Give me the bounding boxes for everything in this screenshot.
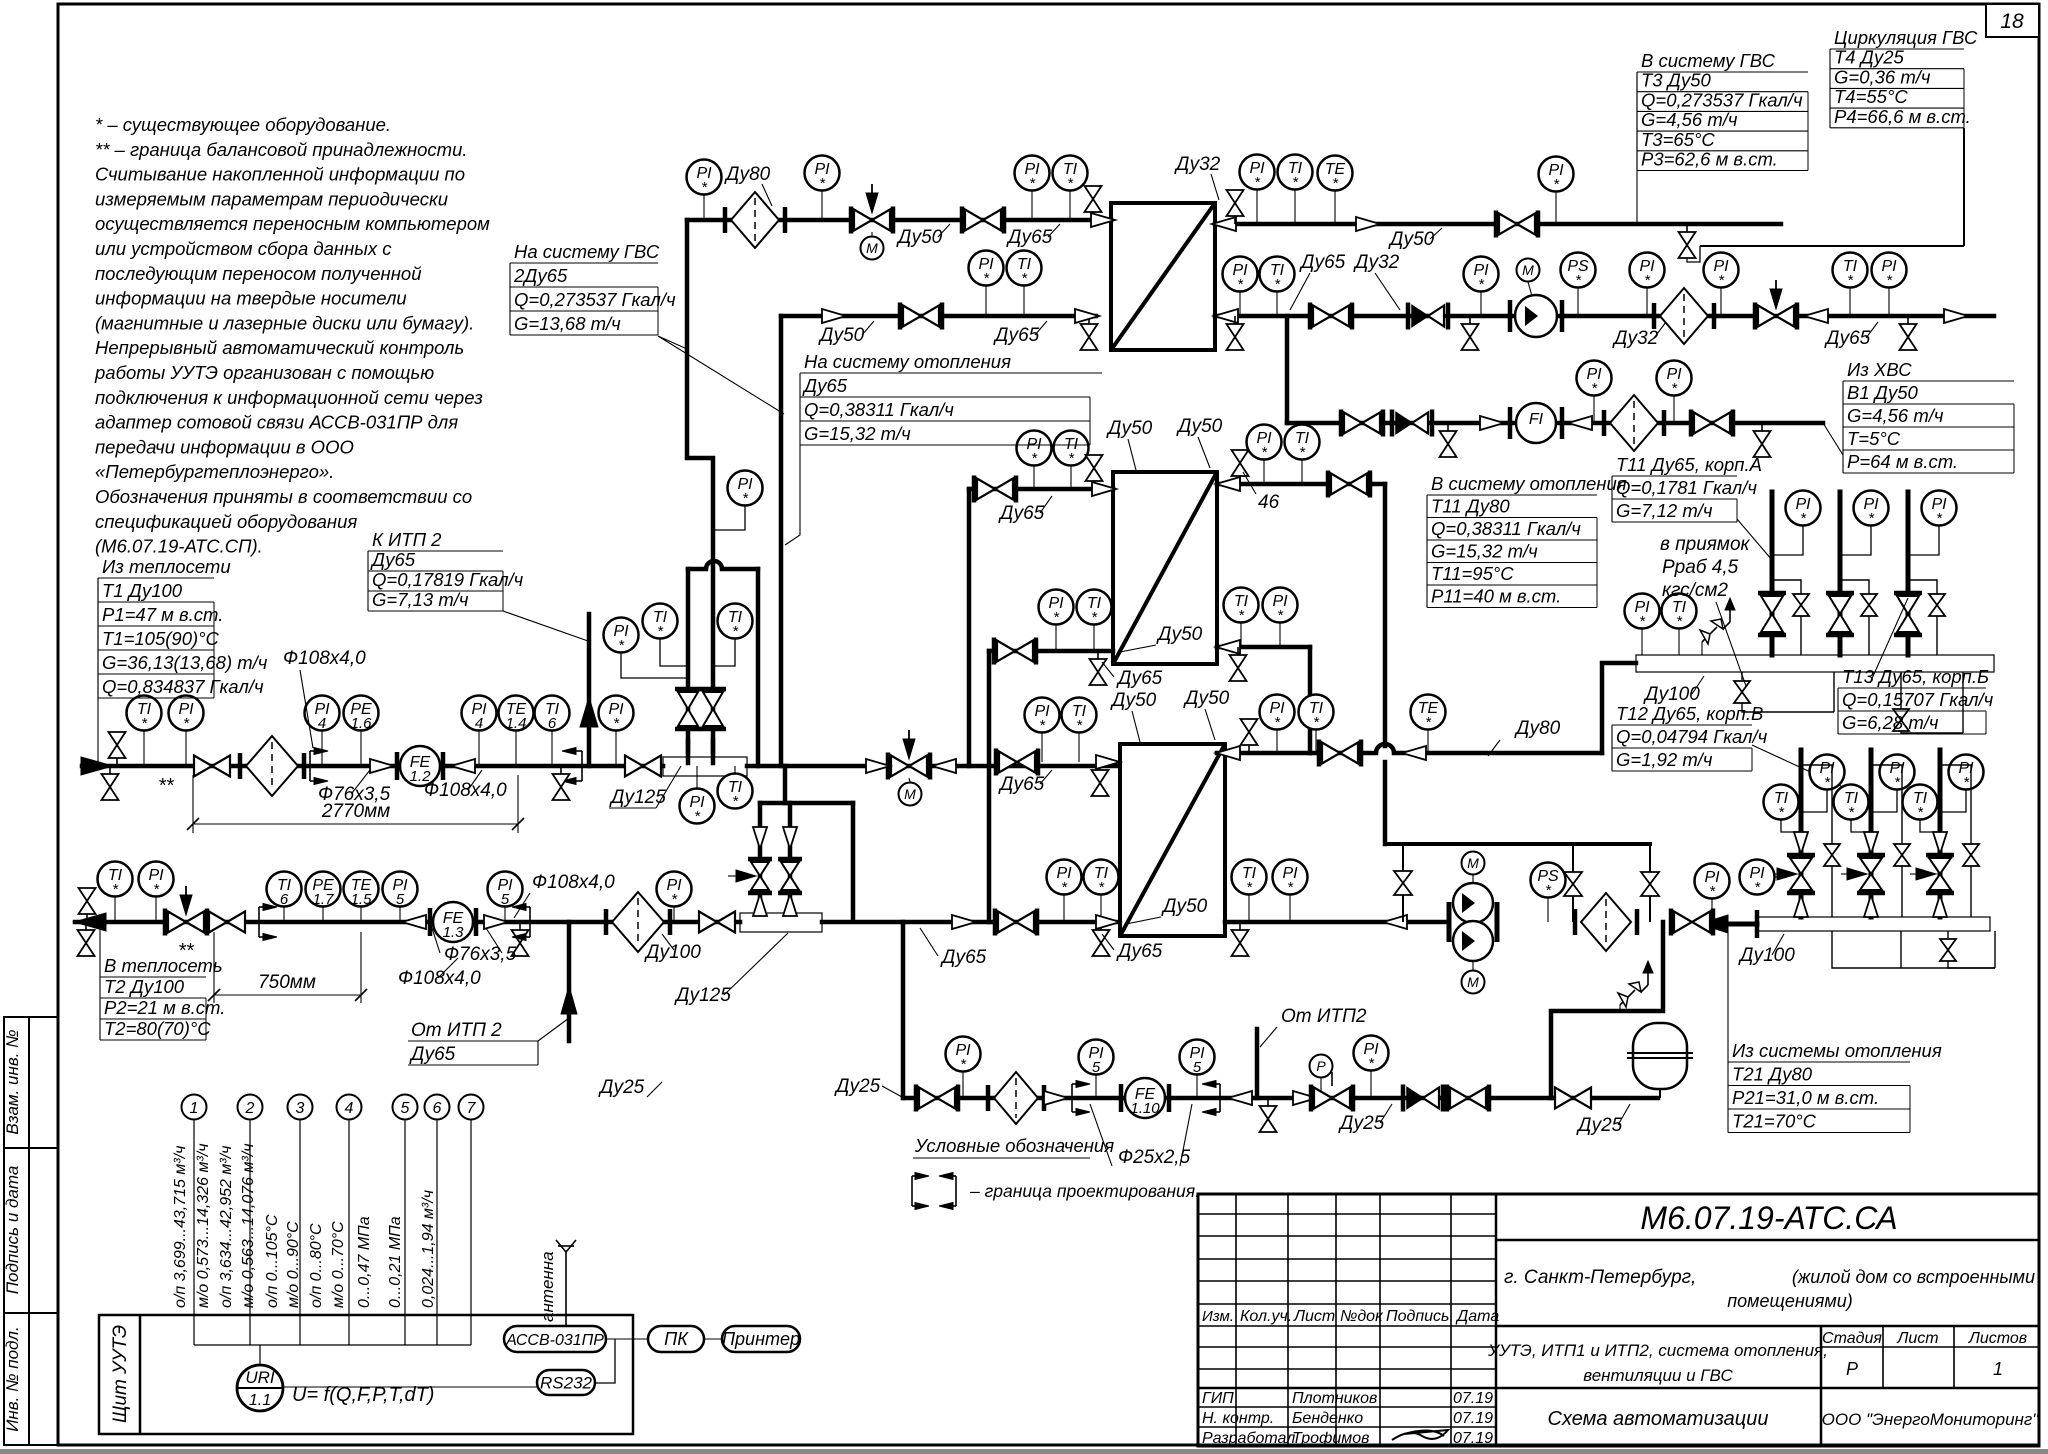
svg-text:№док: №док xyxy=(1340,1308,1384,1325)
motor M pump GVS xyxy=(1517,259,1540,282)
manometer PI* T3 b xyxy=(805,156,840,193)
manometer PI* riser xyxy=(728,471,763,508)
svg-text:От ИТП 2: От ИТП 2 xyxy=(411,1020,502,1041)
relief valve makeup xyxy=(1618,961,1653,1007)
leader T12 xyxy=(1752,745,1871,800)
pipe row2 left xyxy=(781,314,1096,319)
title block text xyxy=(1202,1200,2039,1447)
actuator arrow return 1 xyxy=(1777,868,1797,880)
temp sensor TE-1.5 xyxy=(344,872,379,909)
svg-text:подключения к информационной с: подключения к информационной сети через xyxy=(95,387,483,408)
svg-text:кгс/см2: кгс/см2 xyxy=(1662,580,1728,601)
svg-text:Q=0,17819 Гкал/ч: Q=0,17819 Гкал/ч xyxy=(372,569,524,590)
pipe makeup Du25 xyxy=(903,1096,1658,1101)
svg-text:Т=5°С: Т=5°С xyxy=(1847,428,1901,449)
thermometer TI* return 2 xyxy=(1834,785,1869,822)
svg-text:Циркуляция ГВС: Циркуляция ГВС xyxy=(1834,27,1978,48)
arrow into return valve 3 xyxy=(1933,832,1947,854)
pipe heating return right xyxy=(1225,920,1449,925)
svg-text:Т1=105(90)°С: Т1=105(90)°С xyxy=(102,628,220,649)
bypass valve left xyxy=(748,859,772,893)
strainer heating xyxy=(1575,893,1637,951)
svg-text:Разработал: Разработал xyxy=(1202,1430,1295,1447)
valve HX3 bottom-left xyxy=(995,909,1037,936)
manometer PI* mid xyxy=(680,789,715,826)
svg-text:в приямок: в приямок xyxy=(1660,534,1751,555)
svg-text:Трофимов: Трофимов xyxy=(1292,1430,1370,1447)
flow transducer FE-1.10 xyxy=(1119,1084,1124,1112)
svg-text:Ду100: Ду100 xyxy=(1738,945,1795,966)
bypass left drop xyxy=(758,803,763,913)
leader K ITP2 xyxy=(503,611,588,641)
flow indicator FI xyxy=(1516,403,1556,443)
temp sensor TE-1.4 xyxy=(499,696,534,733)
svg-text:Ду65: Ду65 xyxy=(802,375,848,396)
mixing header xyxy=(688,567,706,572)
return riser 1 xyxy=(1799,750,1804,917)
thermometer TI* HX3tr xyxy=(1299,695,1334,732)
pressure transmitter PE-1.6 xyxy=(344,696,379,733)
svg-text:Т11=95°С: Т11=95°С xyxy=(1431,563,1514,584)
drain valve row2 right xyxy=(1227,316,1244,350)
svg-text:Р1=47 м в.ст.: Р1=47 м в.ст. xyxy=(102,604,223,625)
title block grid xyxy=(1198,1194,2039,1446)
arrow into bypass left xyxy=(753,827,767,849)
svg-text:Q=0,04794 Гкал/ч: Q=0,04794 Гкал/ч xyxy=(1616,726,1768,747)
thermometer TI* HX2tr xyxy=(1285,425,1320,462)
valve supply riser 1 xyxy=(1758,593,1786,635)
svg-text:4: 4 xyxy=(345,1100,354,1117)
flow arrow makeup xyxy=(1044,1091,1068,1105)
check valve row2 xyxy=(1408,303,1448,330)
return manifold xyxy=(1757,917,1990,931)
svg-text:18: 18 xyxy=(2000,10,2024,33)
info box V sistemu otopleniya xyxy=(1427,473,1627,608)
thermometer TI* row2 far xyxy=(1833,253,1868,290)
valve twin right xyxy=(700,689,726,729)
flow transducer FE-1.3 xyxy=(428,908,433,936)
drain to circulation xyxy=(1679,224,1696,258)
svg-text:750мм: 750мм xyxy=(258,972,316,993)
pipe GVS riser from top line xyxy=(687,220,713,752)
svg-text:(М6.07.19-АТС.СП).: (М6.07.19-АТС.СП). xyxy=(95,536,263,557)
manometer PI* T3 c xyxy=(1015,156,1050,193)
svg-text:G=6,28 т/ч: G=6,28 т/ч xyxy=(1842,712,1939,733)
relief drop pipe xyxy=(1551,922,1663,1098)
svg-text:1.5: 1.5 xyxy=(351,891,373,908)
svg-text:Стадия: Стадия xyxy=(1822,1330,1882,1347)
svg-text:вентиляции и ГВС: вентиляции и ГВС xyxy=(1583,1366,1733,1385)
svg-text:От ИТП2: От ИТП2 xyxy=(1281,1006,1367,1027)
bypass valve riser 1 xyxy=(1772,580,1801,655)
thermometer TI* return 3 xyxy=(1903,785,1938,822)
pipe T2 return main xyxy=(75,920,740,925)
svg-text:Ду65: Ду65 xyxy=(370,549,416,570)
flow arrow supply inlet xyxy=(81,757,113,775)
svg-text:Ду50: Ду50 xyxy=(1110,690,1157,711)
valve return b xyxy=(699,912,735,933)
svg-text:6: 6 xyxy=(548,715,557,732)
svg-text:Подпись и дата: Подпись и дата xyxy=(3,1166,22,1295)
bypass return riser 3 xyxy=(1940,765,1971,917)
arrow into manifold 3 xyxy=(1933,895,1947,917)
valve makeup 2 xyxy=(1447,1085,1489,1112)
boundary mark makeup left xyxy=(1072,1081,1090,1116)
svg-text:Т4=55°С: Т4=55°С xyxy=(1834,86,1908,107)
actuator arrow return 3 xyxy=(1916,868,1936,880)
svg-text:В систему отопления: В систему отопления xyxy=(1431,473,1627,494)
svg-text:Ду50: Ду50 xyxy=(896,227,943,248)
thermometer TI* HX2bl xyxy=(1077,590,1112,627)
strainer return xyxy=(606,892,670,952)
control valve M T3 xyxy=(851,207,893,234)
svg-text:Q=0,834837 Гкал/ч: Q=0,834837 Гкал/ч xyxy=(102,676,264,697)
svg-text:1: 1 xyxy=(1993,1359,2003,1379)
twin riser stubs into header xyxy=(686,740,691,763)
drain valve row2 far xyxy=(1900,316,1917,350)
pressure transmitter PE-1.7 xyxy=(306,872,341,909)
svg-text:5: 5 xyxy=(1193,1059,1202,1076)
flow arrow makeup c xyxy=(1293,1091,1317,1105)
info box T12 korp V xyxy=(1612,703,1768,771)
drain valve HX2br xyxy=(1230,647,1247,681)
svg-text:Ду100: Ду100 xyxy=(644,942,701,963)
svg-text:Рраб 4,5: Рраб 4,5 xyxy=(1662,557,1739,578)
boundary marks return right xyxy=(512,904,530,941)
svg-text:G=1,92 т/ч: G=1,92 т/ч xyxy=(1616,749,1713,770)
svg-text:или устройством сбора данных с: или устройством сбора данных с xyxy=(95,238,392,259)
svg-text:Ду50: Ду50 xyxy=(1183,688,1230,709)
valve return xyxy=(209,912,245,933)
svg-text:2Ду65: 2Ду65 xyxy=(513,265,568,286)
drain valve HX3br xyxy=(1232,922,1249,956)
control valve return riser 3 xyxy=(1926,855,1954,893)
motor M pump bottom xyxy=(1462,971,1485,994)
pump GVS xyxy=(1508,300,1513,332)
wire URI-RS232 xyxy=(283,1386,537,1388)
thermometer TI* HX2br xyxy=(1224,588,1259,625)
wire RS232 up to modem line xyxy=(595,1339,615,1383)
svg-text:RS232: RS232 xyxy=(540,1374,593,1393)
svg-text:Ф108х4,0: Ф108х4,0 xyxy=(283,648,366,669)
valve supply riser 2 xyxy=(1826,593,1854,635)
flow arrow into HX1 low xyxy=(1075,309,1099,323)
svg-text:Р: Р xyxy=(1316,1058,1326,1074)
drain manifold left xyxy=(1741,672,1743,680)
flow arrow HX2br xyxy=(1216,640,1240,654)
valve HX2 top-left xyxy=(974,476,1016,503)
boundary marks return left xyxy=(259,904,277,941)
svg-text:Кол.уч.: Кол.уч. xyxy=(1240,1308,1292,1325)
computer URI 1.1 xyxy=(237,1365,283,1411)
manometer PI-5 makeup xyxy=(1079,1040,1114,1077)
svg-text:Ду25: Ду25 xyxy=(1338,1113,1385,1134)
bypass return riser 1 xyxy=(1801,765,1832,917)
svg-text:Ду65: Ду65 xyxy=(993,325,1040,346)
svg-text:В1 Ду50: В1 Ду50 xyxy=(1847,382,1919,403)
vent valve HX2tr xyxy=(1232,450,1249,484)
flow transducer FE-1.2 xyxy=(395,752,400,780)
elbow HX2br down xyxy=(1308,647,1313,753)
svg-text:Ду50: Ду50 xyxy=(1176,416,1223,437)
heat exchanger HX2 xyxy=(1113,472,1217,664)
svg-text:2770мм: 2770мм xyxy=(321,801,390,822)
svg-text:ГИП: ГИП xyxy=(1202,1390,1234,1407)
leader Na sistemu GVS xyxy=(658,336,687,349)
drain valve HX2bl xyxy=(1090,651,1107,685)
manometer PI* T3 elbow xyxy=(687,160,722,197)
svg-text:м/о 0...70°С: м/о 0...70°С xyxy=(330,1221,347,1308)
thermometer TI-6 return xyxy=(267,872,302,909)
wire PC-printer xyxy=(704,1338,722,1340)
flow arrow HX2tr xyxy=(1216,477,1240,491)
svg-text:На систему отопления: На систему отопления xyxy=(804,351,1011,372)
manometer PI* HX2bl xyxy=(1039,590,1074,627)
bypass up arrows xyxy=(753,894,767,916)
valve twin left xyxy=(675,689,701,729)
drain makeup xyxy=(1260,1098,1277,1132)
strainer T3 xyxy=(725,192,785,248)
svg-text:Схема автоматизации: Схема автоматизации xyxy=(1548,1408,1769,1430)
svg-text:0...0,47 МПа: 0...0,47 МПа xyxy=(356,1216,373,1308)
header left leg xyxy=(1402,844,1404,922)
strainer HVS xyxy=(1604,395,1664,451)
channel range labels xyxy=(172,1143,437,1308)
svg-text:(жилой дом со встроенными: (жилой дом со встроенными xyxy=(1792,1267,2035,1287)
elbow Du80 up to manifold xyxy=(1602,663,1636,753)
flow arrow HVS xyxy=(1480,416,1504,430)
drain valve row2 xyxy=(1081,316,1098,350)
svg-text:(магнитные и лазерные диски ил: (магнитные и лазерные диски или бумагу). xyxy=(95,312,474,333)
flow arrow Du80 xyxy=(1402,746,1426,760)
info box Iz teploseti xyxy=(98,556,268,698)
thermometer TI* row2 xyxy=(1007,251,1042,288)
return riser 2 xyxy=(1869,750,1874,917)
leader Iz teploseti xyxy=(97,578,99,766)
svg-text:5: 5 xyxy=(1092,1059,1101,1076)
flow arrow return outlet xyxy=(74,913,106,931)
heat exchanger HX3 xyxy=(1120,744,1225,936)
manometer PI* riser 3 xyxy=(1922,491,1957,528)
manometer PI* T3 right xyxy=(1240,155,1275,192)
svg-text:G=7,13 т/ч: G=7,13 т/ч xyxy=(372,589,469,610)
svg-text:Ду65: Ду65 xyxy=(1116,668,1163,689)
boundary marks supply right xyxy=(562,748,582,785)
svg-text:1.7: 1.7 xyxy=(313,891,335,908)
svg-text:Т4 Ду25: Т4 Ду25 xyxy=(1834,47,1905,68)
svg-text:Т3 Ду50: Т3 Ду50 xyxy=(1641,70,1712,91)
info box V teploset xyxy=(100,955,225,1040)
info box K ITP 2 xyxy=(368,529,524,611)
drain valve supply below xyxy=(102,766,119,800)
svg-text:Ду50: Ду50 xyxy=(1106,418,1153,439)
svg-text:Непрерывный автоматический кон: Непрерывный автоматический контроль xyxy=(95,337,464,358)
thermometer TI* mid xyxy=(718,774,753,811)
strainer GVS xyxy=(1654,288,1714,344)
manometer PI* twin xyxy=(604,618,639,655)
svg-text:Щит УУТЭ: Щит УУТЭ xyxy=(110,1325,131,1423)
bypass valve riser 3 xyxy=(1908,580,1937,655)
flow arrow makeup b xyxy=(1228,1091,1252,1105)
signal wires 1-7 xyxy=(182,1095,484,1366)
manometer PI* before manifold xyxy=(1695,864,1730,901)
flow arrow HX3tr xyxy=(1216,746,1240,760)
pressure sensor P xyxy=(1310,1055,1333,1078)
pipe HVS xyxy=(1287,421,1823,426)
expansion tank xyxy=(1633,1023,1687,1089)
pump bypass header xyxy=(1385,842,1650,846)
svg-text:работы УУТЭ организован с помо: работы УУТЭ организован с помощью xyxy=(94,362,434,383)
svg-text:Из ХВС: Из ХВС xyxy=(1847,359,1912,380)
thermometer TI* HX3bl xyxy=(1084,860,1119,897)
flow arrow after FE1.2 xyxy=(451,759,475,773)
vent valve HX2tl xyxy=(1086,455,1103,489)
svg-text:Р2=21 м в.ст.: Р2=21 м в.ст. xyxy=(104,997,225,1018)
svg-text:«Петербургтеплоэнерго».: «Петербургтеплоэнерго». xyxy=(95,461,334,482)
svg-text:Лист: Лист xyxy=(1896,1330,1938,1347)
svg-text:м/о 0,573...14,326 м³/ч: м/о 0,573...14,326 м³/ч xyxy=(195,1143,212,1308)
thermometer TI* HX3br xyxy=(1232,860,1267,897)
manometer PI* return 3 xyxy=(1949,755,1984,792)
svg-text:Изм.: Изм. xyxy=(1202,1308,1234,1325)
arrow into return valve 1 xyxy=(1794,832,1808,854)
svg-text:0,024...1,94 м³/ч: 0,024...1,94 м³/ч xyxy=(420,1190,437,1308)
valve makeup 3 xyxy=(1555,1088,1591,1109)
svg-text:Ду65: Ду65 xyxy=(1006,227,1053,248)
modem ACCB-031PR xyxy=(504,1326,606,1352)
valve supply inlet xyxy=(194,756,230,777)
left stamp boxes xyxy=(4,1017,58,1445)
check valve HVS xyxy=(1392,410,1432,437)
svg-text:осуществляется переносным комп: осуществляется переносным компьютером xyxy=(95,213,490,234)
svg-text:Дата: Дата xyxy=(1455,1308,1499,1325)
valve row2 right xyxy=(1310,303,1352,330)
actuator arrow bypass xyxy=(736,870,756,882)
svg-text:Т11 Ду80: Т11 Ду80 xyxy=(1431,496,1510,517)
flow arrow before FE1.2 xyxy=(370,759,394,773)
svg-text:1.3: 1.3 xyxy=(443,924,465,941)
notes text block xyxy=(94,114,490,557)
svg-text:помещениями): помещениями) xyxy=(1727,1291,1852,1311)
svg-text:Ду65: Ду65 xyxy=(998,503,1045,524)
flow arrow at HX1 right xyxy=(1212,217,1236,231)
Du125 header section supply xyxy=(663,757,747,776)
svg-text:4: 4 xyxy=(318,715,326,732)
panel box Щит УУТЭ xyxy=(99,1315,633,1434)
svg-text:Н. контр.: Н. контр. xyxy=(1202,1410,1274,1427)
svg-text:М6.07.19-АТС.СА: М6.07.19-АТС.СА xyxy=(1640,1200,1897,1236)
svg-text:6: 6 xyxy=(433,1100,442,1117)
svg-text:Обозначения приняты в соответс: Обозначения приняты в соответствии со xyxy=(95,486,472,507)
svg-text:антенна: антенна xyxy=(538,1251,557,1322)
bypass valve right xyxy=(1649,844,1651,922)
strainer supply xyxy=(240,736,304,796)
svg-text:1.10: 1.10 xyxy=(1130,1100,1160,1117)
thermometer TI* T3 right xyxy=(1278,155,1313,192)
info box Na sistemu otopl xyxy=(800,351,1102,445)
drain valve after FE1.2 xyxy=(553,766,570,800)
svg-text:М: М xyxy=(866,240,878,256)
svg-text:6: 6 xyxy=(280,891,289,908)
svg-text:Принтер: Принтер xyxy=(722,1329,800,1349)
svg-text:М: М xyxy=(904,786,916,802)
supply riser 3 xyxy=(1906,492,1911,655)
pipe Du80 heating supply xyxy=(1310,751,1376,756)
flow arrow row2 xyxy=(822,309,846,323)
svg-text:**: ** xyxy=(158,775,175,797)
dimension 2770mm xyxy=(192,775,194,833)
control valve M supply xyxy=(888,753,930,780)
svg-text:3: 3 xyxy=(296,1100,305,1117)
svg-text:Листов: Листов xyxy=(1968,1330,2027,1347)
manometer PI-5 makeup b xyxy=(1180,1040,1215,1077)
svg-text:Ду50: Ду50 xyxy=(818,325,865,346)
leader V teploset xyxy=(99,925,101,977)
pipe HX3 top-right xyxy=(1217,751,1310,756)
info box Na sistemu GVS xyxy=(510,241,676,335)
manometer PI* makeup xyxy=(946,1037,981,1074)
svg-text:УУТЭ, ИТП1 и ИТП2, система ото: УУТЭ, ИТП1 и ИТП2, система отопления, xyxy=(1487,1341,1828,1360)
svg-text:адаптер сотовой связи АССВ-031: адаптер сотовой связи АССВ-031ПР для xyxy=(95,412,458,433)
info box V sistemu GVS xyxy=(1637,50,1808,171)
valve makeup 1 xyxy=(916,1085,958,1112)
valve T3 xyxy=(962,207,1004,234)
svg-text:** – граница балансовой принад: ** – граница балансовой принадлежности. xyxy=(95,139,468,160)
svg-text:Т12 Ду65, корп.В: Т12 Ду65, корп.В xyxy=(1616,703,1763,724)
drain valve HX3tl xyxy=(1092,762,1109,796)
strainer makeup xyxy=(988,1072,1044,1124)
printer node xyxy=(722,1326,800,1352)
svg-text:Ду125: Ду125 xyxy=(674,985,731,1006)
svg-text:Ду100: Ду100 xyxy=(1643,684,1700,705)
thermometer TI* T3 xyxy=(1053,156,1088,193)
svg-text:Т3=65°С: Т3=65°С xyxy=(1641,129,1715,150)
header downcomer xyxy=(756,569,761,766)
info box Iz sistemy otopl xyxy=(1728,1040,1942,1133)
svg-text:07.19: 07.19 xyxy=(1453,1410,1493,1427)
pipe HX2 bottom-right xyxy=(1217,645,1310,650)
svg-text:G=4,56 т/ч: G=4,56 т/ч xyxy=(1641,109,1738,130)
valve HX2tr xyxy=(1328,471,1370,498)
svg-text:Т13 Ду65, корп.Б: Т13 Ду65, корп.Б xyxy=(1842,666,1989,687)
svg-text:Q=0,273537 Гкал/ч: Q=0,273537 Гкал/ч xyxy=(1641,89,1803,110)
svg-text:Т21 Ду80: Т21 Ду80 xyxy=(1732,1064,1813,1085)
manometer PI* return b xyxy=(657,872,692,909)
thermometer TI* return 1 xyxy=(1764,785,1799,822)
svg-text:G=15,32 т/ч: G=15,32 т/ч xyxy=(804,423,911,444)
info box Iz HVS xyxy=(1843,359,2014,473)
pipe T4 circulation xyxy=(1700,245,1964,247)
svg-text:На систему ГВС: На систему ГВС xyxy=(514,241,660,262)
manometer PI* HVS b xyxy=(1657,361,1692,398)
flow arrow into HX1 top xyxy=(1091,213,1115,227)
svg-text:М: М xyxy=(1467,855,1479,871)
flow arrow HX3bl xyxy=(1096,915,1120,929)
svg-text:Ду80: Ду80 xyxy=(724,164,771,185)
svg-text:Ф108х4,0: Ф108х4,0 xyxy=(532,872,615,893)
manometer PI* HX2br xyxy=(1263,588,1298,625)
pipe T3 left xyxy=(687,218,1111,223)
drain valve HVS xyxy=(1440,423,1457,457)
svg-text:1: 1 xyxy=(190,1100,199,1117)
legend boundary symbol xyxy=(912,1173,929,1210)
svg-text:1.6: 1.6 xyxy=(351,715,373,732)
dimension 750mm xyxy=(213,932,215,1003)
svg-text:ООО "ЭнергоМониторинг": ООО "ЭнергоМониторинг" xyxy=(1822,1410,2040,1429)
vent valve return above xyxy=(79,888,96,922)
temp sensor TE* T3 xyxy=(1318,156,1353,193)
motor M pump top xyxy=(1462,852,1485,875)
